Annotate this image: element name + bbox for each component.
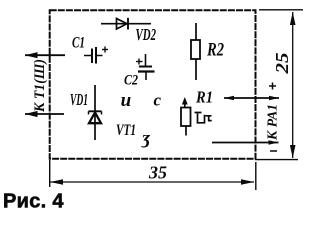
svg-text:и: и [121, 90, 132, 111]
svg-text:VT1: VT1 [116, 122, 136, 139]
svg-text:с: с [154, 91, 162, 110]
svg-text:Рис. 4: Рис. 4 [3, 191, 64, 213]
svg-text:R1: R1 [195, 88, 213, 107]
svg-text:35: 35 [148, 163, 167, 183]
svg-text:ʒ: ʒ [141, 128, 151, 148]
svg-text:VD1: VD1 [70, 90, 88, 109]
svg-text:25: 25 [272, 53, 292, 75]
svg-text:C1: C1 [72, 35, 85, 52]
svg-text:C2: C2 [124, 73, 138, 89]
svg-text:R2: R2 [206, 40, 224, 61]
svg-text:К Т1(Ш): К Т1(Ш) [32, 59, 48, 113]
svg-text:VD2: VD2 [136, 25, 157, 44]
svg-text:К РА1: К РА1 [266, 104, 281, 141]
